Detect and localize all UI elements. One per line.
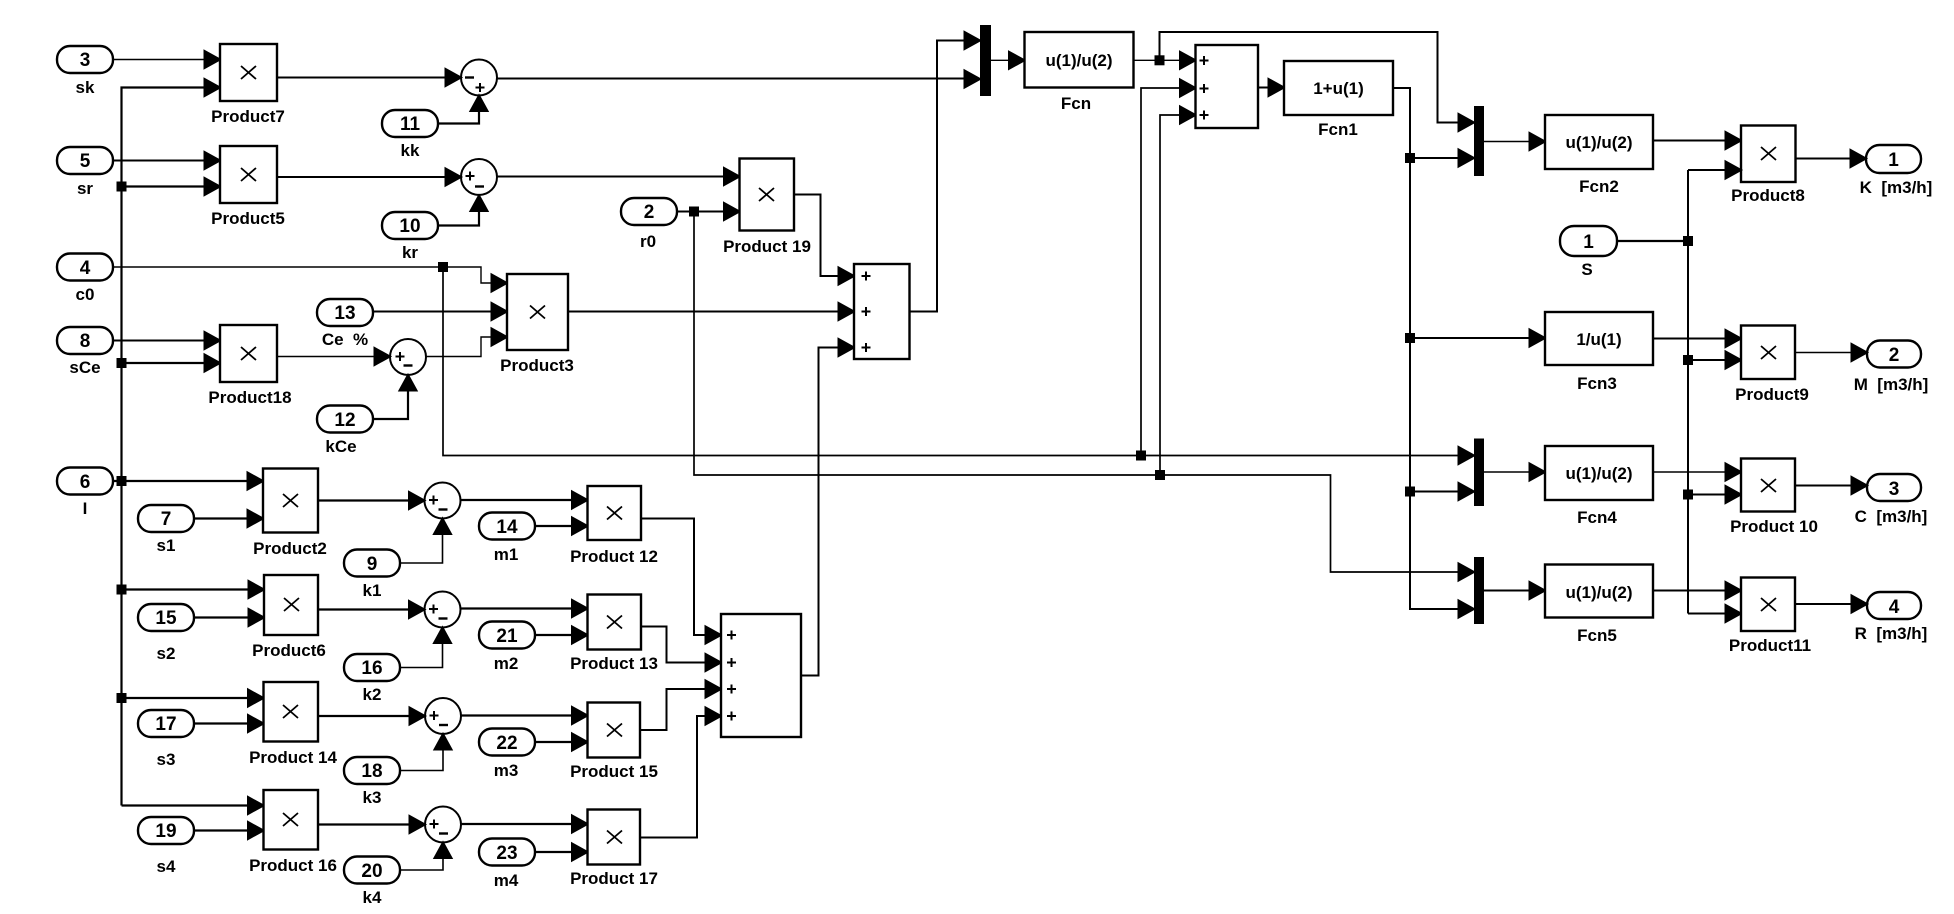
mux Mux3 [1474, 439, 1484, 507]
wire Product13 out to big sum in2 [641, 627, 721, 672]
node S junction at Product9 [1684, 356, 1692, 364]
svg-text:1: 1 [1583, 232, 1594, 253]
wire Fcn1 out down distribution [1393, 88, 1474, 618]
wire Product10 out to output C [1795, 477, 1867, 494]
sum block Sum1 (3 inputs) [1196, 45, 1259, 128]
svg-text:Fcn2: Fcn2 [1579, 177, 1619, 196]
svg-text:5: 5 [80, 151, 91, 172]
svg-text:Product7: Product7 [211, 107, 285, 126]
input port 14 (m1) [479, 513, 535, 565]
product Product16 [249, 790, 337, 875]
svg-text:Product 14: Product 14 [249, 748, 337, 767]
svg-text:18: 18 [361, 761, 382, 782]
svg-text:Fcn: Fcn [1061, 94, 1091, 113]
product Product7 [211, 44, 285, 126]
input port 11 (kk) [382, 110, 438, 160]
node Fcn1 junction at Fcn3 [1406, 334, 1414, 342]
wire I to Product6 in1 [122, 581, 265, 598]
wire Fcn1 branch to Mux3 in2 [1410, 483, 1474, 500]
fcn block Fcn [1025, 32, 1134, 113]
wire S to Product9 in2 [1688, 352, 1741, 369]
mux Mux2 [1474, 106, 1484, 176]
svg-text:m2: m2 [494, 654, 519, 673]
svg-text:4: 4 [80, 258, 91, 279]
node Fcn out junction [1156, 56, 1164, 64]
wire s4 to Product16 in2 [194, 822, 264, 839]
svg-text:Product2: Product2 [253, 539, 327, 558]
svg-text:S: S [1581, 260, 1592, 279]
svg-text:M [m3/h]: M [m3/h] [1854, 375, 1929, 394]
svg-text:12: 12 [334, 410, 355, 431]
wire sum k4 out to Product17 in1 [461, 816, 588, 833]
sum block bottom (4 inputs) [721, 614, 801, 737]
node I junction at s2 row [118, 586, 126, 594]
node I junction at sr row [118, 183, 126, 191]
wire S to Product8 in2 [1688, 162, 1741, 179]
wire k3 to sum k3 [400, 734, 452, 771]
product Product11 [1729, 578, 1811, 656]
svg-text:17: 17 [155, 714, 176, 735]
svg-text:23: 23 [496, 843, 517, 864]
svg-text:m1: m1 [494, 545, 519, 564]
wire Product9 out to output M [1795, 344, 1867, 361]
fcn block Fcn2 [1545, 115, 1653, 196]
svg-text:14: 14 [496, 517, 518, 538]
svg-text:11: 11 [400, 114, 421, 135]
wire m1 to Product12 in2 [535, 518, 588, 535]
wire I distribution vertical [113, 79, 220, 806]
svg-text:10: 10 [399, 216, 420, 237]
fcn block Fcn4 [1545, 446, 1653, 527]
svg-text:Product18: Product18 [208, 388, 291, 407]
wire S to Product10 in2 [1688, 486, 1741, 503]
node Fcn1 junction at Mux2 [1406, 154, 1414, 162]
wire line A branch up to Sum1 block in2 [1141, 80, 1196, 456]
wire Product18 out to sum3 [277, 348, 390, 365]
svg-text:6: 6 [80, 472, 91, 493]
svg-text:7: 7 [161, 509, 172, 530]
svg-text:u(1)/u(2): u(1)/u(2) [1565, 583, 1632, 602]
wire kr to sum2 [438, 196, 488, 226]
wire Product14 out to sum k3 [318, 708, 425, 725]
wire sum2 out to Product19 in1 [497, 168, 740, 185]
wire Fcn5 out to Product11 in1 [1653, 582, 1741, 599]
input port 5 (sr) [57, 147, 113, 198]
output port 1 (K) [1860, 145, 1933, 197]
mux Mux4 [1474, 557, 1484, 624]
svg-text:1+u(1): 1+u(1) [1313, 79, 1364, 98]
wire bottom sum out up to middle sum in3 [801, 339, 854, 676]
wire sum k1 out to Product12 in1 [461, 492, 588, 509]
svg-text:3: 3 [1889, 479, 1900, 500]
fcn block Fcn1 [1284, 61, 1393, 139]
svg-text:u(1)/u(2): u(1)/u(2) [1045, 51, 1112, 70]
svg-text:K [m3/h]: K [m3/h] [1860, 178, 1933, 197]
svg-text:m4: m4 [494, 871, 519, 890]
product Product19 [723, 159, 811, 257]
wire Ce to Product3 in2 [373, 303, 507, 320]
wire S to Product11 in2 [1688, 605, 1741, 622]
svg-text:k2: k2 [363, 685, 382, 704]
wire Product7 out to sum1 [277, 69, 461, 86]
node I junction at s3 row [118, 694, 126, 702]
product Product13 [570, 595, 658, 674]
svg-text:9: 9 [367, 554, 378, 575]
wire Product11 out to output R [1795, 596, 1867, 613]
wire Fcn out to Sum1 block in1 [1134, 52, 1196, 69]
wire k2 to sum k2 [400, 628, 451, 668]
svg-text:k3: k3 [363, 788, 382, 807]
output port 3 (C) [1855, 474, 1928, 526]
svg-text:Product11: Product11 [1729, 636, 1811, 655]
svg-text:Product5: Product5 [211, 209, 285, 228]
wire Product8 out to output K [1796, 150, 1867, 167]
input port 18 (k3) [344, 757, 400, 807]
sum circle k1 [425, 483, 461, 519]
wire S vertical distribution [1687, 170, 1689, 614]
node line A junction [1137, 452, 1145, 460]
node line B junction [1156, 471, 1164, 479]
svg-text:sCe: sCe [69, 358, 100, 377]
input port 16 (k2) [344, 654, 400, 704]
wire Product2 out to sum k1 [318, 492, 425, 509]
output port 4 (R) [1855, 592, 1928, 643]
wire m3 to Product15 in2 [535, 734, 588, 751]
svg-text:2: 2 [644, 202, 655, 223]
product Product2 [253, 469, 327, 559]
input port 7 (s1) [138, 505, 194, 555]
wire sk to Product7 in1 [113, 51, 220, 68]
wire Fcn out branch up to Mux2 in1 [1160, 32, 1475, 131]
wire sum3 out to Product3 in3 [426, 329, 507, 357]
svg-text:R [m3/h]: R [m3/h] [1855, 624, 1928, 643]
svg-text:C [m3/h]: C [m3/h] [1855, 507, 1928, 526]
svg-text:19: 19 [155, 821, 176, 842]
svg-text:m3: m3 [494, 761, 519, 780]
wire Product19 out to middle sum in1 [794, 195, 854, 285]
svg-text:u(1)/u(2): u(1)/u(2) [1565, 133, 1632, 152]
wire sCe to Product18 in1 [113, 332, 220, 349]
wire I to Product5 in2 [122, 178, 221, 195]
svg-text:c0: c0 [76, 285, 95, 304]
svg-text:sr: sr [77, 179, 93, 198]
svg-text:20: 20 [361, 861, 382, 882]
svg-text:k1: k1 [363, 581, 382, 600]
svg-text:kr: kr [402, 243, 418, 262]
wire r0 down, line B to Mux4 in1 [694, 212, 1474, 581]
fcn block Fcn5 [1545, 565, 1653, 646]
svg-text:s3: s3 [157, 750, 176, 769]
svg-text:s2: s2 [157, 644, 176, 663]
wire Mux1 out to Fcn [991, 52, 1025, 69]
input port 15 (s2) [138, 604, 194, 663]
node S junction at Product10 [1684, 491, 1692, 499]
product Product3 [500, 274, 574, 375]
svg-text:kCe: kCe [325, 437, 356, 456]
svg-text:Fcn5: Fcn5 [1577, 626, 1617, 645]
input port 6 (I) [57, 468, 113, 519]
sum block middle (3 inputs) [854, 264, 910, 359]
input port 22 (m3) [479, 729, 535, 781]
svg-text:s1: s1 [157, 536, 176, 555]
svg-text:Fcn1: Fcn1 [1318, 120, 1358, 139]
input port 13 (Ce %) [317, 299, 373, 349]
wire k1 to sum k1 [400, 519, 451, 564]
svg-text:Product 15: Product 15 [570, 762, 658, 781]
input port 20 (k4) [344, 857, 400, 908]
sum circle k2 [425, 592, 461, 628]
wire Fcn3 out to Product9 in1 [1653, 330, 1741, 347]
wire I to Product18 in2 [122, 355, 221, 372]
input port 19 (s4) [138, 817, 194, 876]
product Product8 [1731, 126, 1805, 206]
wire Product17 out to big sum in4 [640, 708, 721, 838]
input port 23 (m4) [479, 839, 535, 891]
wire Mux4 out to Fcn5 [1484, 582, 1545, 599]
wire Fcn2 out to Product8 in1 [1653, 132, 1741, 149]
wire sr to Product5 in1 [113, 152, 220, 169]
wire Product15 out to big sum in3 [640, 681, 721, 731]
svg-text:k4: k4 [363, 888, 382, 907]
svg-text:Product6: Product6 [252, 641, 326, 660]
wire line B branch up to Sum1 block in3 [1160, 107, 1196, 476]
input port 10 (kr) [382, 212, 438, 262]
wire Product12 out to big sum in1 [641, 519, 721, 644]
svg-text:Product3: Product3 [500, 356, 574, 375]
svg-text:Ce %: Ce % [322, 330, 368, 349]
svg-text:13: 13 [334, 303, 355, 324]
wire m4 to Product17 in2 [535, 844, 588, 861]
svg-text:sk: sk [76, 78, 95, 97]
node S junction [1684, 237, 1692, 245]
wire sum k3 out to Product15 in1 [461, 707, 588, 724]
wire Fcn1 branch to Fcn3 [1410, 330, 1545, 347]
input port 17 (s3) [138, 710, 194, 769]
svg-text:8: 8 [80, 331, 91, 352]
svg-text:Fcn3: Fcn3 [1577, 374, 1617, 393]
wire Fcn4 out to Product10 in1 [1653, 464, 1741, 481]
wire c0 to Product3 in1 (with jog) [113, 267, 507, 292]
product Product10 [1730, 459, 1818, 537]
input port 21 (m2) [479, 622, 535, 674]
product Product15 [570, 703, 658, 782]
wire Sum1 out to Fcn1 [1258, 79, 1284, 96]
svg-text:Product9: Product9 [1735, 385, 1809, 404]
svg-text:3: 3 [80, 50, 91, 71]
sum circle sum2 [461, 159, 497, 195]
input port 3 (sk) [57, 46, 113, 97]
input port 12 (kCe) [317, 406, 373, 457]
input port 1 (S) [1560, 226, 1617, 279]
svg-text:Product 16: Product 16 [249, 856, 337, 875]
input port 8 (sCe) [57, 327, 113, 377]
wire I to Product2 in1 [122, 473, 264, 490]
product Product12 [570, 486, 658, 566]
sum circle k3 [425, 698, 461, 734]
svg-text:22: 22 [496, 733, 517, 754]
product Product6 [252, 575, 326, 660]
svg-text:Product 17: Product 17 [570, 869, 658, 888]
product Product17 [570, 810, 658, 889]
wire c0 branch down, line A to Mux3 in1 [443, 267, 1474, 464]
sum circle sum1 [461, 60, 497, 96]
svg-text:15: 15 [155, 608, 177, 629]
wire Mux2 out to Fcn2 [1484, 133, 1545, 150]
wire s2 to Product6 in2 [194, 609, 264, 626]
wire m2 to Product13 in2 [535, 627, 588, 644]
mux Mux1 [980, 25, 991, 96]
sum circle k4 [425, 807, 461, 843]
wire sum k2 out to Product13 in1 [461, 600, 588, 617]
wire middle sum out up to Mux1 in1 [910, 32, 981, 312]
node I junction at sCe row [118, 359, 126, 367]
svg-text:r0: r0 [640, 232, 656, 251]
product Product14 [249, 682, 337, 767]
svg-text:4: 4 [1889, 597, 1900, 618]
wire Product3 out to middle sum in2 [568, 303, 854, 320]
svg-text:Fcn4: Fcn4 [1577, 508, 1617, 527]
node r0 junction [690, 208, 698, 216]
wire s3 to Product14 in2 [194, 715, 264, 732]
svg-text:16: 16 [361, 658, 382, 679]
wire Product5 out to sum2 [277, 169, 461, 186]
wire Product6 out to sum k2 [318, 601, 425, 618]
product Product5 [211, 146, 285, 228]
wire s1 to Product2 in2 [194, 510, 263, 527]
svg-text:21: 21 [496, 626, 518, 647]
svg-text:s4: s4 [157, 857, 176, 876]
input port 9 (k1) [344, 550, 400, 601]
wire kCe to sum3 [373, 375, 417, 419]
svg-text:1/u(1): 1/u(1) [1576, 330, 1621, 349]
product Product9 [1735, 326, 1809, 405]
input port 4 (c0) [57, 254, 113, 305]
node Fcn1 junction at Mux3 [1406, 488, 1414, 496]
wire S to junction [1617, 240, 1688, 242]
wire Mux3 out to Fcn4 [1484, 464, 1545, 481]
svg-text:Product 19: Product 19 [723, 237, 811, 256]
wire Product16 out to sum k4 [318, 816, 425, 833]
output port 2 (M) [1854, 341, 1929, 395]
svg-text:kk: kk [401, 141, 420, 160]
wire k4 to sum k4 [400, 843, 452, 871]
wire I to Product14 in1 [122, 690, 264, 707]
node I junction at s1 row [118, 477, 126, 485]
wire sum1 out to Mux1 in2 [497, 71, 980, 88]
product Product18 [208, 325, 291, 407]
wire kk to sum1 [438, 96, 488, 124]
wire r0 to Product19 in2 [677, 203, 740, 220]
svg-text:1: 1 [1888, 150, 1899, 171]
fcn block Fcn3 [1545, 312, 1653, 393]
wire Fcn1 branch to Mux2 in2 [1410, 150, 1474, 167]
svg-text:Product 12: Product 12 [570, 547, 658, 566]
svg-text:I: I [83, 499, 88, 518]
svg-text:2: 2 [1889, 345, 1900, 366]
svg-text:u(1)/u(2): u(1)/u(2) [1565, 464, 1632, 483]
sum circle sum3 [390, 339, 426, 375]
input port 2 (r0) [621, 198, 677, 251]
svg-text:Product 10: Product 10 [1730, 517, 1818, 536]
svg-text:Product 13: Product 13 [570, 654, 658, 673]
svg-text:Product8: Product8 [1731, 186, 1805, 205]
wire I to Product16 in1 [122, 797, 264, 814]
node c0 branch junction [439, 263, 447, 271]
